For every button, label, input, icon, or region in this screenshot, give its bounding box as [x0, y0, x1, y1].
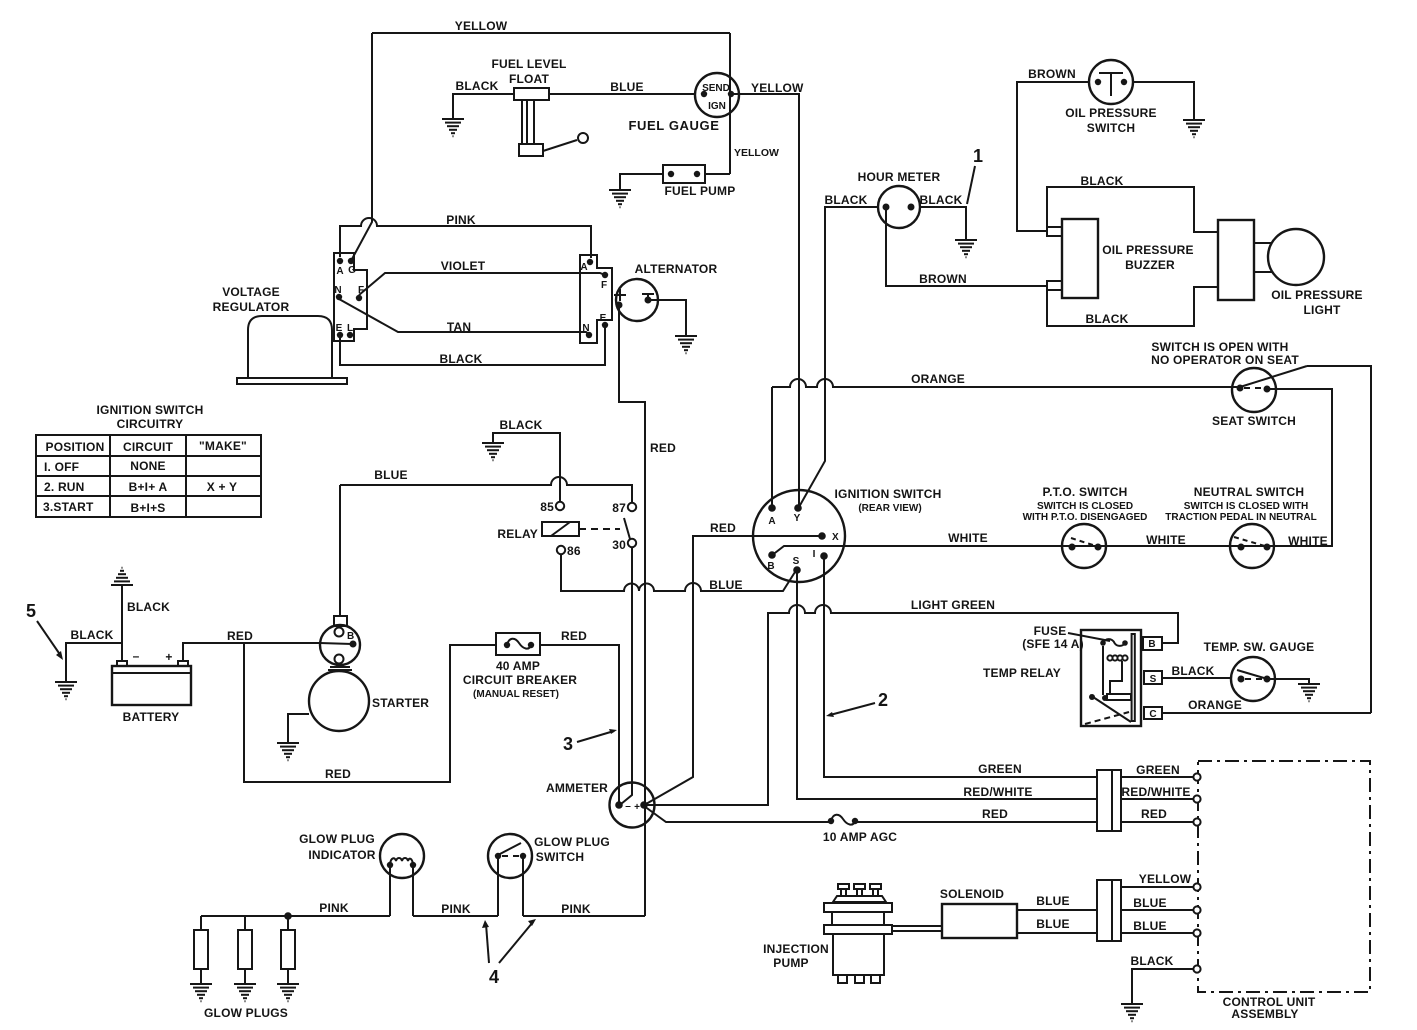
svg-text:GLOW PLUGS: GLOW PLUGS — [204, 1006, 288, 1020]
wire black battery negative to grounds — [66, 586, 122, 681]
svg-text:BROWN: BROWN — [919, 272, 967, 286]
wire red ammeter to fuse and control unit — [644, 806, 1098, 822]
wire starter to ground — [288, 714, 309, 742]
svg-text:BLACK: BLACK — [1131, 954, 1174, 968]
svg-text:RED: RED — [710, 521, 736, 535]
wire red breaker to ammeter — [540, 645, 619, 802]
svg-text:N: N — [582, 323, 589, 334]
wire ignition A drop — [771, 387, 773, 508]
svg-text:40 AMP: 40 AMP — [496, 659, 540, 673]
svg-text:BLACK: BLACK — [1086, 312, 1129, 326]
svg-text:SWITCH: SWITCH — [536, 850, 585, 864]
svg-text:B+I+ A: B+I+ A — [129, 480, 168, 494]
wire white ignition B through pto and neutral — [771, 546, 1332, 556]
pto switch — [1023, 485, 1148, 568]
svg-text:85: 85 — [540, 500, 554, 514]
svg-text:RELAY: RELAY — [497, 527, 538, 541]
solenoid — [940, 887, 1017, 938]
connector (lower) — [1097, 880, 1121, 941]
wire yellow top bus — [372, 32, 730, 34]
wire yellow gauge to ignition Y — [733, 94, 799, 508]
wire alternator right to ground — [651, 300, 686, 335]
svg-text:YELLOW: YELLOW — [455, 19, 508, 33]
svg-text:BLACK: BLACK — [1081, 174, 1124, 188]
svg-text:BLUE: BLUE — [1036, 894, 1069, 908]
temp relay — [983, 630, 1162, 726]
alternator connector — [580, 255, 612, 343]
svg-text:AMMETER: AMMETER — [546, 781, 608, 795]
svg-text:BLUE: BLUE — [709, 578, 742, 592]
svg-text:INJECTION: INJECTION — [763, 942, 829, 956]
svg-text:3: 3 — [563, 734, 573, 754]
svg-text:CIRCUITRY: CIRCUITRY — [117, 417, 184, 431]
svg-text:IGNITION SWITCH: IGNITION SWITCH — [97, 403, 204, 417]
wire yellow right drop to fuel pump — [729, 33, 731, 174]
svg-text:(REAR VIEW): (REAR VIEW) — [858, 503, 921, 514]
svg-text:BLACK: BLACK — [825, 193, 868, 207]
wire black to fuel level float — [453, 94, 515, 118]
svg-text:2. RUN: 2. RUN — [44, 480, 85, 494]
wire blue float to gauge — [549, 93, 696, 95]
wire blue starter solenoid to relay 87 — [340, 477, 632, 502]
wire black hour meter left to ignition Y — [799, 207, 878, 507]
wire relay 30 down to ammeter — [621, 547, 632, 804]
svg-text:NEUTRAL SWITCH: NEUTRAL SWITCH — [1194, 485, 1305, 499]
svg-text:BLACK: BLACK — [440, 352, 483, 366]
svg-text:BATTERY: BATTERY — [123, 710, 180, 724]
fuel pump — [663, 165, 735, 198]
svg-text:RED/WHITE: RED/WHITE — [963, 785, 1032, 799]
wire black buzzer bottom loop to light — [1047, 287, 1218, 326]
svg-text:S: S — [1150, 674, 1157, 685]
alternator — [614, 262, 717, 321]
ground (glow plug 2) — [234, 984, 256, 1001]
svg-text:CIRCUIT BREAKER: CIRCUIT BREAKER — [463, 673, 577, 687]
svg-text:C: C — [1149, 709, 1156, 720]
svg-text:BLUE: BLUE — [374, 468, 407, 482]
svg-text:4: 4 — [489, 967, 499, 987]
svg-text:2: 2 — [878, 690, 888, 710]
svg-text:BUZZER: BUZZER — [1125, 258, 1175, 272]
wire violet regulator F to alternator F — [359, 273, 605, 295]
svg-text:PUMP: PUMP — [773, 956, 808, 970]
ground (temp gauge) — [1298, 684, 1320, 701]
svg-text:STARTER: STARTER — [372, 696, 429, 710]
wire black temp relay S to temp gauge — [1162, 677, 1231, 679]
svg-text:REGULATOR: REGULATOR — [213, 300, 290, 314]
wire yellow connector to control unit — [1121, 886, 1194, 888]
wire black relay 85 to ground — [493, 433, 560, 501]
svg-text:TAN: TAN — [447, 320, 471, 334]
svg-text:GLOW PLUG: GLOW PLUG — [299, 832, 375, 846]
wire black control unit to ground — [1132, 969, 1194, 1003]
wire fuel pump right — [705, 173, 730, 175]
svg-text:BLACK: BLACK — [127, 600, 170, 614]
glow plug indicator — [299, 832, 424, 916]
wire pink glow plugs bus — [201, 915, 645, 917]
svg-text:BLACK: BLACK — [920, 193, 963, 207]
svg-text:RED: RED — [650, 441, 676, 455]
svg-text:P.T.O. SWITCH: P.T.O. SWITCH — [1042, 485, 1127, 499]
svg-text:PINK: PINK — [561, 902, 591, 916]
svg-text:RED: RED — [325, 767, 351, 781]
svg-text:SOLENOID: SOLENOID — [940, 887, 1004, 901]
callout 4 — [482, 919, 536, 987]
svg-text:YELLOW: YELLOW — [1139, 872, 1192, 886]
seat switch — [1151, 340, 1307, 428]
circuit breaker 40 amp — [463, 633, 577, 700]
svg-text:I. OFF: I. OFF — [44, 460, 79, 474]
ground (glow plug 1) — [190, 984, 212, 1001]
svg-text:FUEL GAUGE: FUEL GAUGE — [629, 118, 720, 133]
svg-text:YELLOW: YELLOW — [751, 81, 804, 95]
svg-text:YELLOW: YELLOW — [734, 147, 779, 159]
wire red battery to starter B — [183, 643, 352, 661]
wire blue starter solenoid drop — [339, 485, 341, 616]
starter — [309, 671, 429, 731]
ground (oil switch) — [1183, 120, 1205, 137]
wire blue relay 86 to ignition S — [561, 554, 795, 591]
wire black regulator E to alternator E — [340, 328, 605, 365]
fuel level float — [491, 57, 588, 156]
svg-text:RED: RED — [561, 629, 587, 643]
svg-text:TEMP RELAY: TEMP RELAY — [983, 666, 1061, 680]
svg-text:HOUR METER: HOUR METER — [858, 170, 941, 184]
ground (fuel float) — [442, 119, 464, 136]
svg-text:RED: RED — [982, 807, 1008, 821]
control unit assembly — [1193, 761, 1370, 1021]
svg-text:B: B — [1148, 639, 1155, 650]
ground (hour meter) — [955, 240, 977, 257]
wire blue solenoid lower — [1017, 932, 1097, 934]
svg-text:(MANUAL RESET): (MANUAL RESET) — [473, 689, 559, 700]
svg-text:5: 5 — [26, 601, 36, 621]
svg-text:BLACK: BLACK — [500, 418, 543, 432]
svg-text:PINK: PINK — [441, 902, 471, 916]
svg-text:BLACK: BLACK — [456, 79, 499, 93]
svg-text:+: + — [165, 650, 172, 664]
svg-text:CIRCUIT: CIRCUIT — [123, 440, 174, 454]
wire white seat switch right down to neutral switch — [1267, 389, 1332, 547]
ignition switch — [753, 487, 942, 582]
svg-text:IGN: IGN — [708, 101, 726, 112]
wire oil switch right to ground — [1133, 82, 1194, 119]
svg-text:FUSE: FUSE — [1034, 624, 1067, 638]
fuel gauge — [629, 73, 740, 133]
svg-text:L: L — [347, 323, 353, 334]
ground (control unit) — [1121, 1004, 1143, 1021]
svg-text:IGNITION SWITCH: IGNITION SWITCH — [835, 487, 942, 501]
wire green ignition I to control unit — [824, 559, 1097, 777]
svg-text:PINK: PINK — [446, 213, 476, 227]
ground (glow plug 3) — [277, 984, 299, 1001]
svg-text:WHITE: WHITE — [1146, 533, 1186, 547]
wire blue solenoid upper — [1017, 909, 1097, 911]
svg-text:S: S — [793, 556, 800, 567]
relay — [497, 500, 636, 558]
wire red-white ignition S to control unit — [797, 573, 1097, 799]
svg-text:B: B — [767, 561, 774, 572]
ammeter — [546, 781, 655, 828]
wire black buzzer top loop to light — [1047, 187, 1218, 232]
battery — [112, 649, 191, 724]
wire pink regulator A to alternator A — [340, 218, 591, 258]
wire red-white connector to control unit — [1121, 798, 1194, 800]
callout 2 — [826, 690, 888, 717]
svg-text:BLUE: BLUE — [1133, 919, 1166, 933]
svg-text:OIL PRESSURE: OIL PRESSURE — [1102, 243, 1194, 257]
svg-text:30: 30 — [612, 538, 626, 552]
wire red battery loop to circuit breaker — [244, 643, 496, 782]
shaft injection pump to solenoid — [892, 926, 942, 931]
svg-text:B+I+S: B+I+S — [130, 501, 165, 515]
svg-text:FUEL LEVEL: FUEL LEVEL — [491, 57, 566, 71]
wire blue upper connector to control unit — [1121, 909, 1194, 911]
svg-text:FUEL PUMP: FUEL PUMP — [665, 184, 736, 198]
glow plugs (3 resistors) — [194, 916, 295, 1020]
svg-text:RED: RED — [1141, 807, 1167, 821]
svg-text:BLUE: BLUE — [1036, 917, 1069, 931]
svg-text:+: + — [634, 802, 640, 813]
svg-text:OIL PRESSURE: OIL PRESSURE — [1271, 288, 1363, 302]
svg-text:TEMP. SW. GAUGE: TEMP. SW. GAUGE — [1204, 640, 1315, 654]
wire green connector to control unit — [1121, 776, 1194, 778]
svg-text:RED/WHITE: RED/WHITE — [1121, 785, 1190, 799]
temp sw gauge — [1204, 640, 1315, 701]
svg-text:87: 87 — [612, 501, 626, 515]
svg-text:NONE: NONE — [130, 459, 165, 473]
svg-text:ASSEMBLY: ASSEMBLY — [1231, 1007, 1298, 1021]
oil pressure buzzer — [1047, 219, 1194, 298]
svg-text:WHITE: WHITE — [948, 531, 988, 545]
oil pressure light — [1218, 220, 1363, 317]
glow plug switch — [488, 834, 610, 916]
hour meter — [858, 170, 941, 228]
svg-text:VIOLET: VIOLET — [441, 259, 486, 273]
wire fuel pump left to ground — [620, 174, 663, 189]
svg-text:FLOAT: FLOAT — [509, 72, 550, 86]
svg-text:SWITCH: SWITCH — [1087, 121, 1136, 135]
svg-text:A: A — [768, 516, 775, 527]
svg-text:E: E — [336, 323, 343, 334]
ground (starter) — [277, 743, 299, 760]
wire seat switch arm to right bus — [1307, 366, 1371, 713]
wire temp gauge to ground — [1270, 679, 1309, 683]
wire orange ignition A to seat switch — [772, 379, 1237, 387]
svg-text:LIGHT GREEN: LIGHT GREEN — [911, 598, 995, 612]
wire black hour meter right to ground — [920, 207, 966, 239]
oil pressure switch — [1065, 60, 1157, 135]
svg-text:A: A — [580, 262, 587, 273]
svg-text:3.START: 3.START — [43, 500, 94, 514]
callout 1 — [967, 146, 983, 204]
starter solenoid — [320, 616, 360, 670]
ground (relay) — [482, 443, 504, 460]
callout 3 — [563, 729, 617, 754]
svg-text:BLACK: BLACK — [71, 628, 114, 642]
svg-text:PINK: PINK — [319, 901, 349, 915]
wire orange temp relay C to right bus — [1162, 712, 1371, 714]
svg-text:GLOW PLUG: GLOW PLUG — [534, 835, 610, 849]
svg-text:VOLTAGE: VOLTAGE — [222, 285, 280, 299]
fuse 10 amp agc — [823, 815, 897, 844]
svg-text:SWITCH IS CLOSED WITH: SWITCH IS CLOSED WITH — [1184, 501, 1308, 512]
ignition switch circuitry table — [36, 403, 261, 517]
svg-text:(SFE 14 A): (SFE 14 A) — [1022, 637, 1084, 651]
svg-text:X + Y: X + Y — [207, 480, 237, 494]
callout 5 — [26, 601, 63, 660]
svg-text:E: E — [600, 313, 607, 324]
svg-text:SWITCH IS OPEN WITH: SWITCH IS OPEN WITH — [1151, 340, 1288, 354]
wire brown hour meter to buzzer — [886, 210, 1047, 286]
wire red alternator down to ammeter and pink corner — [619, 308, 645, 916]
ground (fuel pump) — [609, 190, 631, 207]
ground (above battery, inverted) — [111, 568, 133, 585]
svg-text:WITH P.T.O. DISENGAGED: WITH P.T.O. DISENGAGED — [1023, 512, 1148, 523]
svg-text:86: 86 — [567, 544, 581, 558]
ground (alternator) — [675, 336, 697, 353]
svg-text:SEND: SEND — [702, 83, 730, 94]
svg-text:POSITION: POSITION — [46, 440, 105, 454]
voltage regulator connector — [334, 253, 367, 341]
svg-text:BLUE: BLUE — [610, 80, 643, 94]
svg-text:10 AMP AGC: 10 AMP AGC — [823, 830, 897, 844]
svg-text:1: 1 — [973, 146, 983, 166]
svg-text:OIL PRESSURE: OIL PRESSURE — [1065, 106, 1157, 120]
svg-text:F: F — [601, 280, 607, 291]
svg-text:LIGHT: LIGHT — [1304, 303, 1341, 317]
svg-text:"MAKE": "MAKE" — [199, 439, 247, 453]
svg-text:BROWN: BROWN — [1028, 67, 1076, 81]
svg-text:–: – — [625, 801, 631, 812]
svg-text:INDICATOR: INDICATOR — [308, 848, 375, 862]
svg-text:BLACK: BLACK — [1172, 664, 1215, 678]
node pink junction — [284, 912, 292, 920]
svg-text:G: G — [348, 265, 356, 276]
fuse label (sfe 14a) — [1022, 624, 1110, 651]
svg-text:Y: Y — [794, 513, 801, 524]
svg-text:ALTERNATOR: ALTERNATOR — [635, 262, 718, 276]
svg-text:–: – — [133, 649, 140, 663]
svg-text:SEAT SWITCH: SEAT SWITCH — [1212, 414, 1296, 428]
wire brown oil switch to buzzer — [1017, 82, 1089, 231]
svg-text:SWITCH IS CLOSED: SWITCH IS CLOSED — [1037, 501, 1133, 512]
svg-text:RED: RED — [227, 629, 253, 643]
svg-text:I: I — [813, 549, 816, 560]
svg-text:B: B — [347, 631, 354, 642]
ground (left of battery) — [55, 682, 77, 699]
wire tan regulator N to alternator N — [339, 299, 589, 334]
svg-text:BLUE: BLUE — [1133, 896, 1166, 910]
injection pump — [763, 884, 892, 983]
voltage regulator body — [213, 285, 347, 384]
svg-text:ORANGE: ORANGE — [911, 372, 965, 386]
svg-text:GREEN: GREEN — [978, 762, 1022, 776]
svg-text:A: A — [336, 266, 343, 277]
svg-text:WHITE: WHITE — [1288, 534, 1328, 548]
wire yellow left drop to regulator G — [352, 33, 372, 259]
wire blue lower connector to control unit — [1121, 932, 1194, 934]
svg-text:TRACTION PEDAL IN NEUTRAL: TRACTION PEDAL IN NEUTRAL — [1165, 512, 1316, 523]
svg-text:N: N — [334, 285, 341, 296]
svg-text:X: X — [832, 532, 839, 543]
neutral switch — [1165, 485, 1316, 568]
svg-text:NO OPERATOR ON SEAT: NO OPERATOR ON SEAT — [1151, 353, 1299, 367]
svg-text:ORANGE: ORANGE — [1188, 698, 1242, 712]
wire red ignition X down to ammeter — [646, 536, 820, 804]
wire light green ammeter to temp relay B — [646, 605, 1178, 805]
svg-text:GREEN: GREEN — [1136, 763, 1180, 777]
connector (upper) — [1097, 770, 1121, 831]
wire red connector to control unit — [1121, 821, 1194, 823]
